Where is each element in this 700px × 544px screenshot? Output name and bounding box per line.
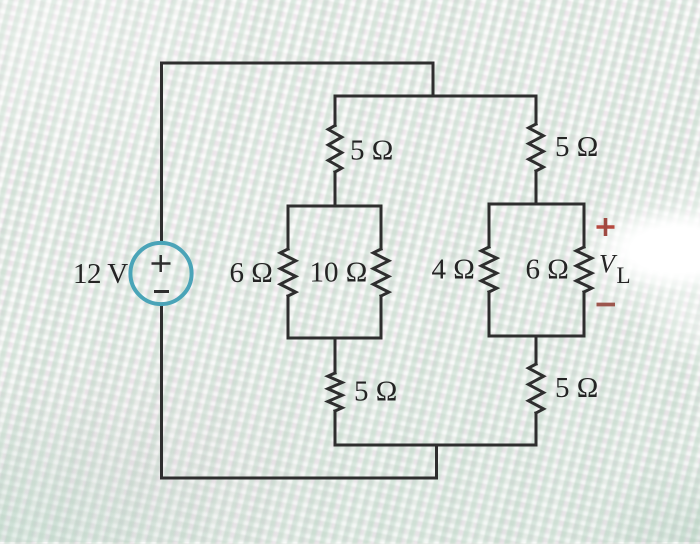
svg-text:12 V: 12 V <box>73 258 128 290</box>
svg-text:L: L <box>617 263 631 288</box>
svg-text:4 Ω: 4 Ω <box>432 254 475 286</box>
svg-text:5 Ω: 5 Ω <box>350 135 393 167</box>
svg-text:5 Ω: 5 Ω <box>555 372 598 404</box>
svg-text:6 Ω: 6 Ω <box>526 254 569 286</box>
svg-text:V: V <box>599 250 618 279</box>
svg-text:5 Ω: 5 Ω <box>555 131 598 163</box>
svg-text:10 Ω: 10 Ω <box>310 257 368 289</box>
svg-text:5 Ω: 5 Ω <box>354 376 397 408</box>
svg-text:6 Ω: 6 Ω <box>230 257 273 289</box>
